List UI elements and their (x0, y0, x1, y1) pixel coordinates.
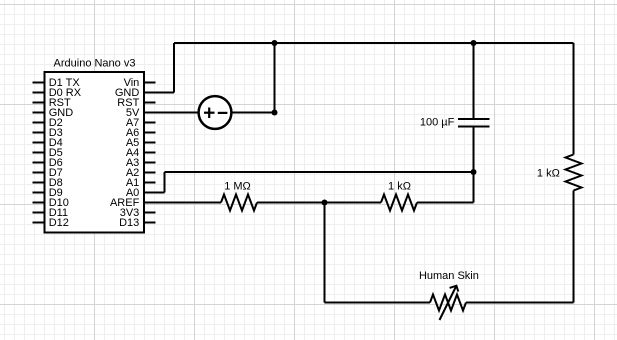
wire A0 pin step (144, 192, 165, 194)
capacitor C1 (458, 119, 490, 127)
svg-text:1 kΩ: 1 kΩ (388, 180, 411, 192)
resistor R3 1 kOhm vertical (566, 155, 582, 191)
wire bottom rail right segment (466, 302, 574, 304)
svg-text:1 MΩ: 1 MΩ (224, 180, 251, 192)
resistor R1 1 MOhm (221, 195, 257, 211)
pin D0 RX (33, 87, 82, 99)
wire capacitor bottom to node (473, 127, 475, 173)
pin RST right (117, 97, 155, 109)
IC U1 Arduino Nano v3 body (45, 72, 145, 233)
wire junction to R2 (325, 202, 382, 204)
wire 5V pin to source (144, 112, 199, 114)
pin A5 (126, 137, 156, 149)
svg-text:D13: D13 (119, 217, 139, 229)
pin A6 (126, 127, 156, 139)
pin D1 TX (33, 77, 81, 89)
pin D2 (33, 117, 63, 129)
pin 5V (126, 107, 140, 119)
pin A4 (126, 147, 156, 159)
pin A0 (126, 187, 139, 199)
pin D6 (33, 157, 63, 169)
pin A1 (126, 177, 156, 189)
pin Vin (124, 77, 156, 89)
pin D12 (33, 217, 69, 229)
wire R3 down to bottom rail (573, 191, 575, 303)
pin GND right (115, 87, 140, 99)
svg-text:100 µF: 100 µF (420, 117, 455, 129)
wire R1 to junction (257, 202, 325, 204)
pin AREF (110, 197, 140, 209)
pin D5 (33, 147, 63, 159)
pin D9 (33, 187, 63, 199)
wire A0 step vertical (164, 172, 166, 193)
wire AREF pin to R1 (144, 202, 221, 204)
junction dot source corner (272, 110, 278, 116)
junction dot top rail at capacitor branch (471, 40, 477, 46)
pin GND left (33, 107, 74, 119)
junction dot top rail at source branch (272, 40, 278, 46)
pin A3 (126, 157, 156, 169)
wire GND pin to riser (144, 92, 174, 94)
pin D10 (33, 197, 69, 209)
wire top rail down to capacitor (473, 43, 475, 119)
pin 3V3 (120, 207, 156, 219)
pin A7 (126, 117, 156, 129)
pin D4 (33, 137, 63, 149)
wire branch riser up to AREF rail (324, 203, 326, 303)
wire skin resistor to branch riser (325, 302, 431, 304)
resistor R2 1 kOhm horizontal (381, 195, 417, 211)
wire source to corner (232, 112, 275, 114)
svg-text:Human Skin: Human Skin (419, 270, 479, 282)
variable resistor R4 Human Skin (430, 286, 466, 320)
wire R2 to cap branch corner (417, 202, 474, 204)
junction dot capacitor bottom node (471, 169, 477, 175)
pin D8 (33, 177, 63, 189)
wire A0 rail to cap bottom node (165, 171, 474, 173)
pin A2 (126, 167, 156, 179)
pin D3 (33, 127, 63, 139)
pin D7 (33, 167, 63, 179)
wire corner up to cap bottom node (473, 172, 475, 203)
wire top rail (174, 42, 574, 44)
svg-text:D12: D12 (49, 217, 69, 229)
svg-text:1 kΩ: 1 kΩ (537, 167, 560, 179)
wire right drop to resistor R3 (573, 43, 575, 155)
wire corner up to top rail (274, 43, 276, 113)
voltage source V1 (199, 96, 232, 129)
pin D11 (33, 207, 69, 219)
wire riser up to top rail (173, 43, 175, 93)
junction dot AREF rail skin branch (322, 200, 328, 206)
pin RST left (33, 97, 71, 109)
pin D13 (119, 217, 155, 229)
svg-text:Arduino Nano v3: Arduino Nano v3 (54, 57, 136, 69)
